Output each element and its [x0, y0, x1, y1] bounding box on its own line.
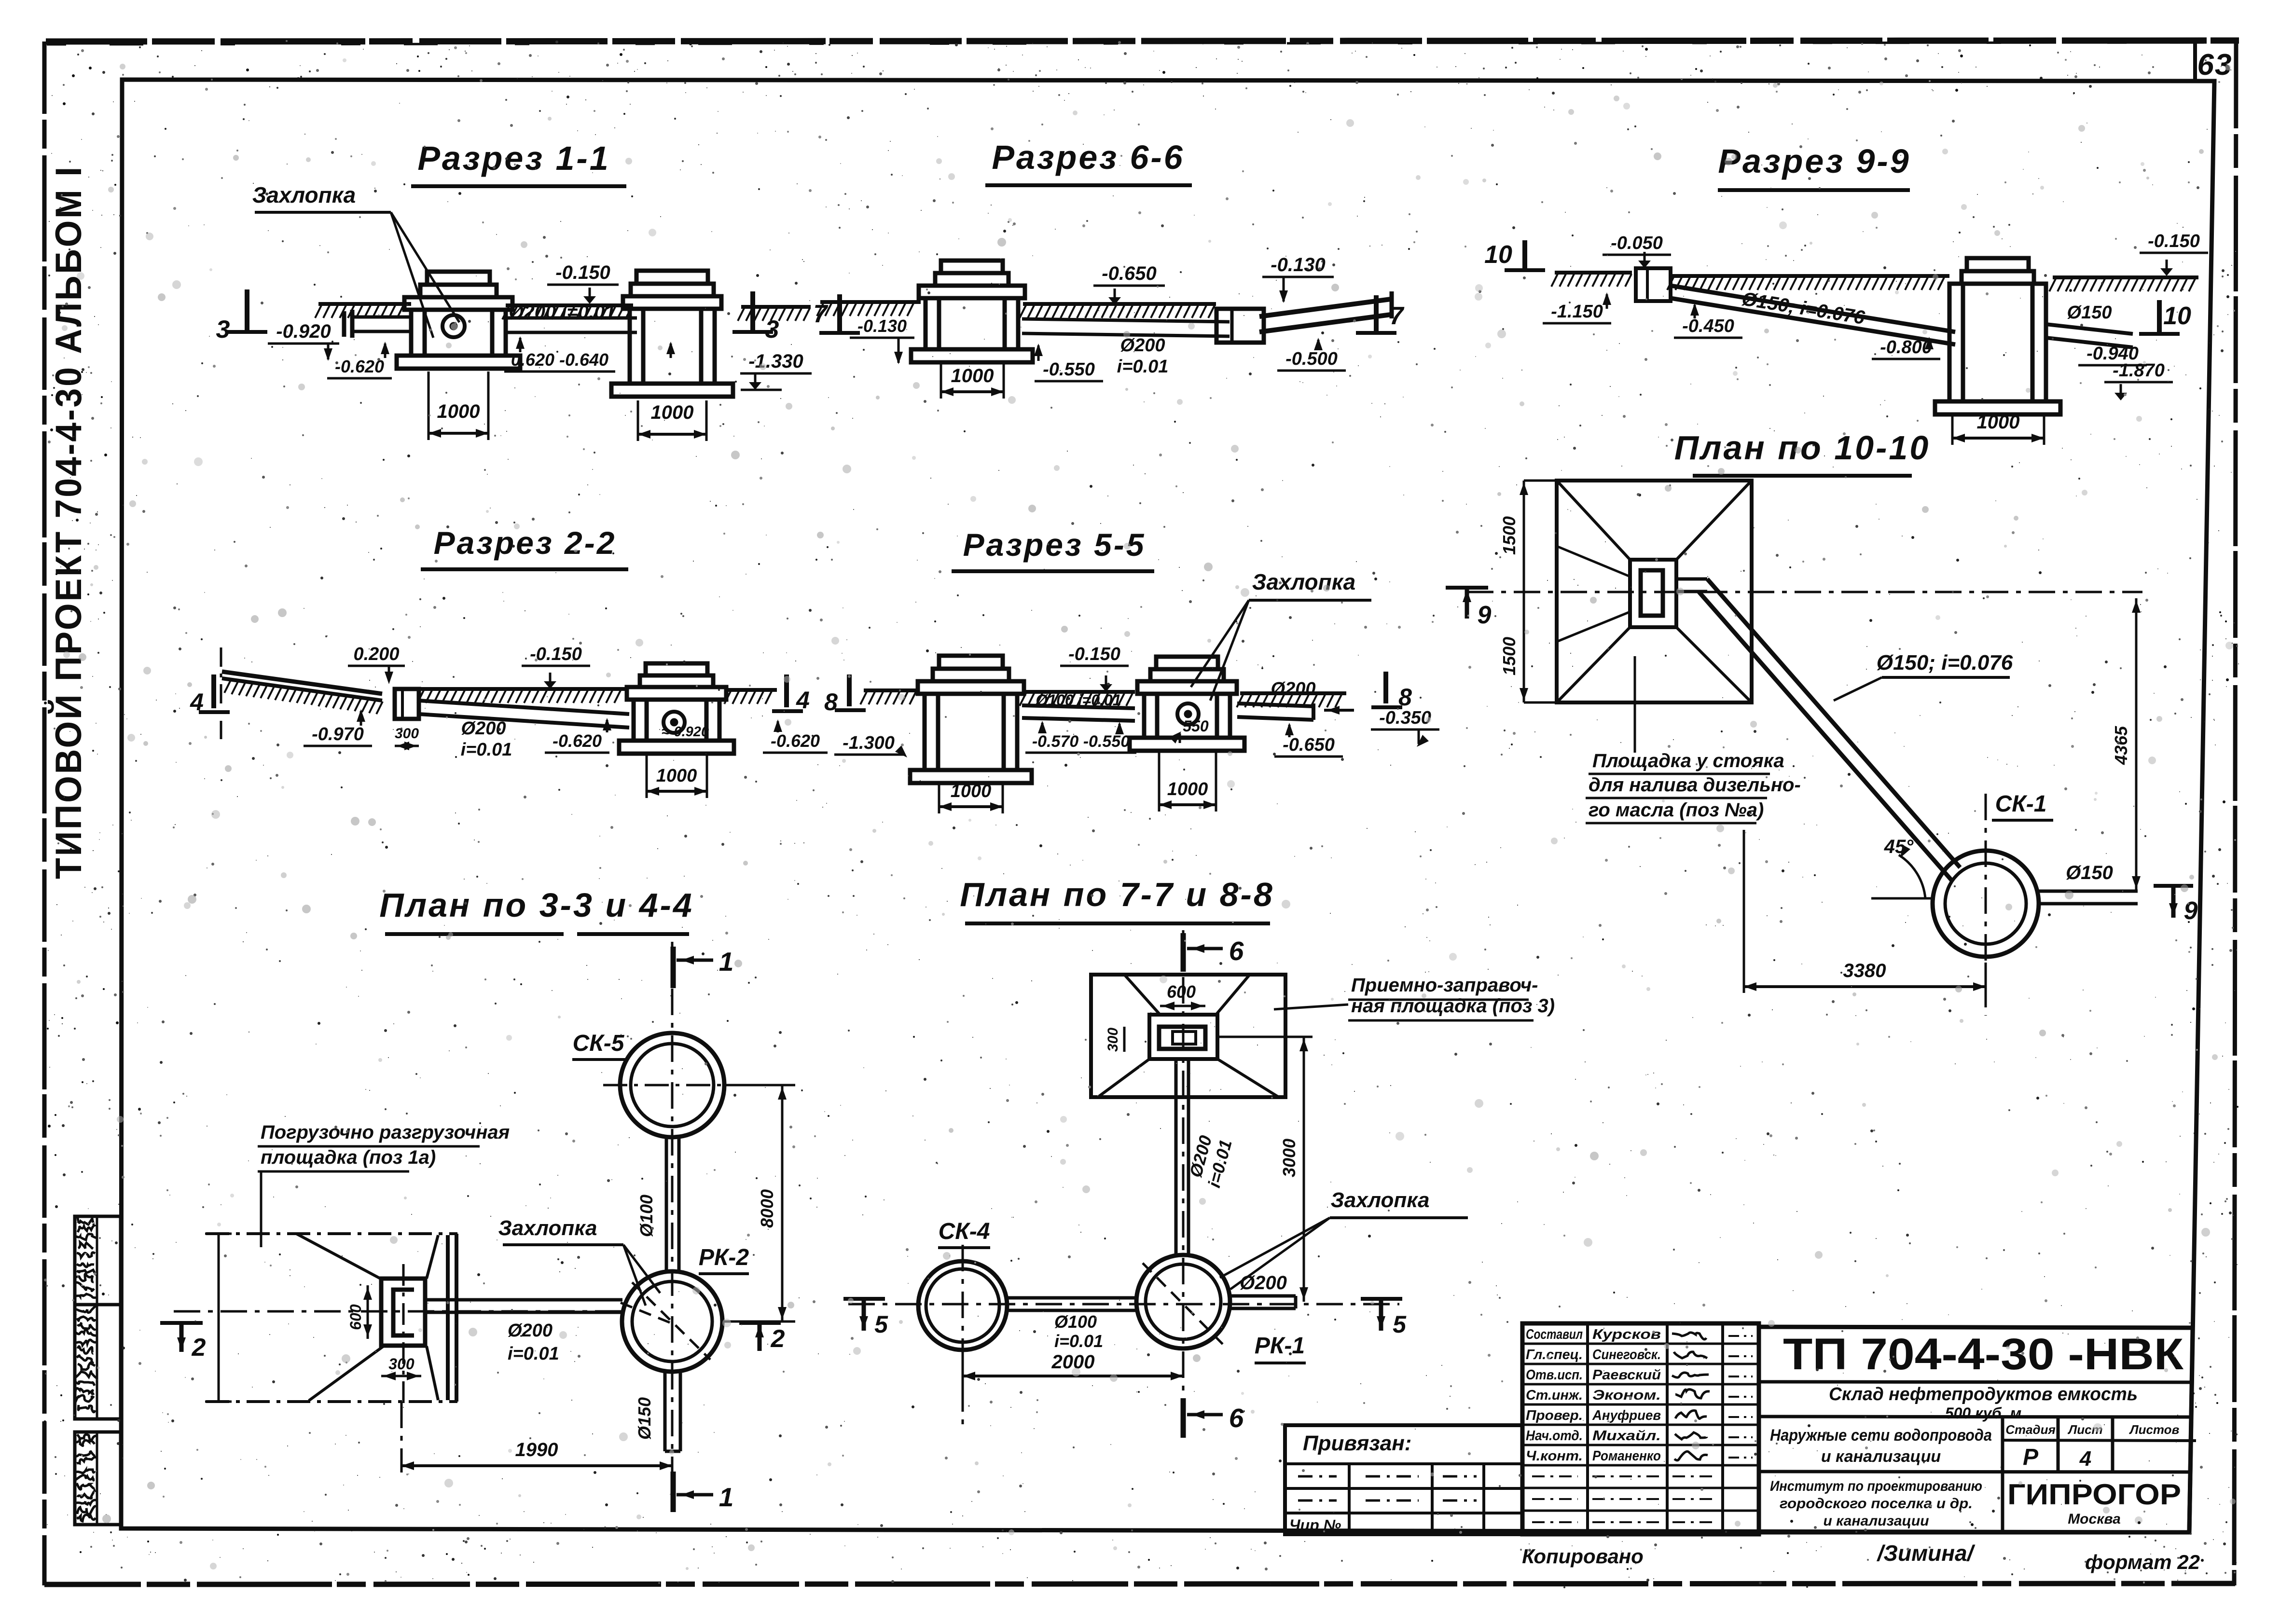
svg-text:1000: 1000 [651, 402, 694, 423]
svg-text:-0.350: -0.350 [1379, 708, 1431, 728]
svg-text:-0.150: -0.150 [2148, 231, 2200, 251]
svg-text:2: 2 [771, 1325, 785, 1353]
svg-text:4: 4 [2079, 1447, 2091, 1471]
svg-text:Ø200: Ø200 [1120, 335, 1165, 356]
svg-text:Ø150: Ø150 [635, 1397, 654, 1440]
svg-text:ТИПОВОЙ ПРОЕКТ 704-4-30: ТИПОВОЙ ПРОЕКТ 704-4-30 АЛЬБОМ I [48, 165, 89, 879]
svg-text:Разрез 2-2: Разрез 2-2 [434, 525, 617, 561]
svg-text:1990: 1990 [515, 1439, 558, 1460]
svg-text:-0.500: -0.500 [1285, 349, 1338, 369]
svg-text:7: 7 [814, 300, 829, 328]
svg-text:Захлопка: Захлопка [1330, 1188, 1429, 1212]
svg-text:-0.970: -0.970 [312, 724, 364, 744]
svg-text:Ø200: Ø200 [508, 1321, 553, 1341]
svg-text:и канализации: и канализации [1823, 1513, 1929, 1529]
svg-text:Нач.отд.: Нач.отд. [1526, 1428, 1583, 1444]
svg-text:Стадия: Стадия [2005, 1422, 2056, 1437]
svg-text:-0.650: -0.650 [1102, 263, 1156, 284]
svg-text:Погрузочно разгрузочная: Погрузочно разгрузочная [261, 1122, 510, 1143]
svg-text:План по 3-3 и 4-4: План по 3-3 и 4-4 [379, 886, 694, 924]
svg-text:9: 9 [1478, 601, 1492, 629]
svg-text:300: 300 [395, 726, 419, 742]
svg-text:-1.870: -1.870 [2113, 360, 2165, 381]
svg-text:Приемно-заправоч-: Приемно-заправоч- [1351, 975, 1538, 996]
svg-text:500 куб. м: 500 куб. м [1945, 1404, 2022, 1422]
svg-text:-0.150: -0.150 [1068, 644, 1120, 664]
svg-text:-1.300: -1.300 [843, 733, 895, 753]
svg-text:1000: 1000 [1167, 779, 1208, 799]
svg-text:Отв.исп.: Отв.исп. [1526, 1367, 1583, 1383]
svg-text:Составил: Составил [1526, 1327, 1583, 1342]
svg-text:План по 7-7 и 8-8: План по 7-7 и 8-8 [960, 876, 1274, 913]
svg-text:1000: 1000 [951, 365, 994, 386]
svg-text:Ø100 i=0.01: Ø100 i=0.01 [1036, 691, 1121, 709]
svg-text:Ø200 i=0.01: Ø200 i=0.01 [509, 302, 615, 323]
svg-text:0.620 -0.640: 0.620 -0.640 [511, 350, 608, 370]
svg-text:3: 3 [216, 316, 230, 344]
svg-text:ГИПРОГОР: ГИПРОГОР [2007, 1478, 2181, 1511]
svg-text:Раевский: Раевский [1592, 1367, 1661, 1383]
svg-text:2: 2 [192, 1334, 206, 1362]
svg-text:6: 6 [1229, 1403, 1244, 1433]
svg-text:-1.330: -1.330 [748, 351, 803, 372]
svg-text:550: 550 [1183, 717, 1209, 735]
svg-text:3: 3 [765, 316, 779, 344]
svg-text:План по 10-10: План по 10-10 [1674, 429, 1931, 467]
svg-text:РК-1: РК-1 [1255, 1333, 1305, 1359]
svg-text:1500: 1500 [1499, 637, 1519, 675]
svg-text:-0.650: -0.650 [1283, 735, 1335, 755]
svg-text:i=0.01: i=0.01 [1117, 357, 1169, 377]
svg-text:1000: 1000 [951, 781, 992, 801]
svg-text:Листов: Листов [2129, 1422, 2180, 1437]
svg-text:формат 22: формат 22 [2085, 1551, 2200, 1573]
svg-text:1: 1 [719, 1482, 734, 1512]
svg-text:9: 9 [2184, 897, 2198, 925]
svg-text:0.200: 0.200 [353, 644, 399, 664]
svg-text:3000: 3000 [1279, 1139, 1299, 1177]
svg-text:-0.130: -0.130 [857, 316, 907, 336]
svg-text:-0.620: -0.620 [553, 731, 602, 751]
svg-text:ТП 704-4-30 -НВК: ТП 704-4-30 -НВК [1783, 1330, 2184, 1379]
svg-text:1000: 1000 [1977, 412, 2020, 433]
svg-text:Ø100: Ø100 [636, 1195, 656, 1237]
svg-text:-0.620: -0.620 [771, 731, 820, 751]
svg-text:го масла (поз №а): го масла (поз №а) [1589, 799, 1764, 821]
svg-text:600: 600 [1167, 982, 1196, 1002]
svg-text:Синеговск.: Синеговск. [1592, 1347, 1661, 1363]
svg-text:Копировано: Копировано [1522, 1545, 1644, 1568]
svg-text:Институт по проектированию: Институт по проектированию [1770, 1478, 1982, 1494]
svg-text:-0.450: -0.450 [1682, 316, 1734, 336]
svg-text:7: 7 [1390, 302, 1405, 330]
svg-text:для налива дизельно-: для налива дизельно- [1589, 774, 1801, 796]
svg-text:Захлопка: Захлопка [1252, 569, 1355, 594]
svg-text:i=0.01: i=0.01 [1054, 1331, 1103, 1351]
svg-text:Площадка у стояка: Площадка у стояка [1592, 750, 1784, 771]
svg-text:площадка (поз 1а): площадка (поз 1а) [261, 1147, 436, 1168]
svg-text:3380: 3380 [1843, 960, 1886, 981]
svg-text:Эконом.: Эконом. [1592, 1388, 1661, 1403]
svg-text:-0.130: -0.130 [1271, 254, 1325, 275]
svg-text:10: 10 [1484, 241, 1512, 269]
svg-text:-0.150: -0.150 [530, 644, 582, 664]
svg-text:1000: 1000 [437, 401, 480, 422]
svg-text:Романенко: Романенко [1592, 1448, 1661, 1464]
svg-text:РК-2: РК-2 [699, 1245, 749, 1270]
svg-text:Р: Р [2023, 1445, 2039, 1470]
svg-text:Ø200: Ø200 [1240, 1272, 1287, 1294]
svg-text:СК-4: СК-4 [939, 1219, 990, 1244]
svg-text:Разрез 1-1: Разрез 1-1 [417, 139, 610, 177]
svg-text:Москва: Москва [2068, 1511, 2121, 1527]
svg-text:Ст.инж.: Ст.инж. [1526, 1388, 1583, 1403]
svg-text:1: 1 [719, 947, 734, 977]
svg-text:6: 6 [1229, 936, 1244, 966]
svg-text:городского поселка и др.: городского поселка и др. [1780, 1496, 1973, 1512]
svg-text:-0.800: -0.800 [1880, 337, 1932, 358]
svg-text:4365: 4365 [2111, 726, 2131, 765]
svg-text:и канализации: и канализации [1821, 1447, 1941, 1466]
svg-text:i=0.01: i=0.01 [508, 1344, 559, 1364]
svg-text:Гл.спец.: Гл.спец. [1526, 1347, 1583, 1363]
svg-text:Захлопка: Захлопка [498, 1216, 597, 1240]
svg-text:Курсков: Курсков [1592, 1327, 1661, 1342]
svg-text:Ø150: Ø150 [2067, 303, 2112, 323]
svg-text:Ø100: Ø100 [1054, 1312, 1097, 1332]
svg-text:5: 5 [874, 1311, 888, 1338]
svg-text:≈-0.920: ≈-0.920 [662, 724, 709, 740]
svg-text:1000: 1000 [656, 766, 697, 786]
svg-text:8000: 8000 [757, 1189, 777, 1228]
svg-text:-0.150: -0.150 [555, 262, 610, 283]
svg-text:10: 10 [2163, 302, 2191, 330]
svg-text:Ø150: Ø150 [2066, 862, 2113, 883]
svg-text:45°: 45° [1884, 836, 1914, 857]
svg-text:/Зимина/: /Зимина/ [1877, 1541, 1976, 1566]
svg-text:5: 5 [1393, 1311, 1407, 1338]
svg-text:-0.550: -0.550 [1043, 359, 1095, 380]
svg-text:Провер.: Провер. [1526, 1408, 1583, 1423]
svg-text:СК-5: СК-5 [573, 1031, 625, 1056]
svg-text:СК-1: СК-1 [1995, 791, 2047, 817]
svg-text:-0.920: -0.920 [276, 321, 331, 342]
svg-text:-0.570 -0.550: -0.570 -0.550 [1032, 732, 1130, 751]
svg-text:-0.050: -0.050 [1611, 233, 1663, 253]
svg-text:300: 300 [1105, 1028, 1121, 1052]
svg-text:Ø150; i=0.076: Ø150; i=0.076 [1877, 651, 2013, 674]
svg-text:Михайл.: Михайл. [1592, 1428, 1661, 1444]
svg-text:Разрез 6-6: Разрез 6-6 [992, 138, 1184, 176]
svg-text:Ø200: Ø200 [1271, 679, 1316, 699]
svg-text:Разрез 5-5: Разрез 5-5 [963, 527, 1146, 563]
svg-text:Привязан:: Привязан: [1303, 1431, 1411, 1455]
svg-text:600: 600 [347, 1304, 364, 1330]
svg-text:1500: 1500 [1499, 516, 1519, 555]
svg-text:Склад нефтепродуктов емкость: Склад нефтепродуктов емкость [1829, 1384, 2138, 1404]
svg-text:Ч.конт.: Ч.конт. [1526, 1448, 1583, 1464]
svg-text:ная площадка (поз 3): ная площадка (поз 3) [1351, 995, 1555, 1017]
svg-text:Наружные сети водопровода: Наружные сети водопровода [1770, 1426, 1992, 1445]
svg-text:Чир №: Чир № [1289, 1516, 1341, 1534]
svg-text:-1.150: -1.150 [1551, 302, 1603, 322]
svg-text:Ануфриев: Ануфриев [1592, 1408, 1661, 1423]
svg-text:i=0.01: i=0.01 [461, 740, 512, 760]
svg-text:Разрез 9-9: Разрез 9-9 [1718, 142, 1910, 180]
svg-text:-0.620: -0.620 [335, 357, 384, 376]
svg-text:300: 300 [388, 1355, 415, 1373]
